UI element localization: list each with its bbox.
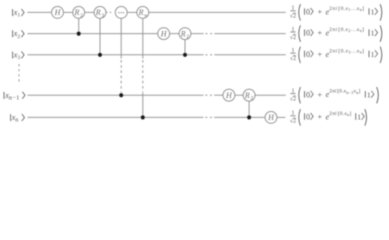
wire row4 cdots dash2: [210, 94, 212, 96]
gate R3 row1: [94, 6, 106, 18]
svg-text:0: 0: [306, 8, 310, 17]
svg-text:x2: x2: [13, 29, 21, 40]
svg-text:+: +: [318, 8, 323, 17]
expression row2: [290, 25, 382, 41]
svg-text:xn: xn: [11, 113, 19, 124]
gate R2 row4: [243, 89, 255, 101]
wire row3 cdots dash1: [205, 54, 207, 56]
svg-text:n: n: [144, 13, 147, 19]
gate H row1: [52, 6, 64, 18]
svg-text:xn−1: xn−1: [4, 91, 19, 102]
gate H row5: [265, 112, 277, 124]
svg-text:2: 2: [186, 34, 189, 40]
svg-text:1: 1: [371, 50, 375, 59]
expression row1: [290, 4, 382, 20]
wire row2 mid: [191, 33, 204, 35]
wire row1 R2-R3: [85, 11, 95, 13]
svg-text:+: +: [318, 90, 323, 99]
svg-text:+: +: [318, 113, 323, 122]
wire row3 left: [28, 54, 204, 56]
svg-text:2πi[0.x1…xn]: 2πi[0.x1…xn]: [329, 6, 364, 12]
control line R2 row2 to row3: [184, 40, 186, 55]
svg-text:R: R: [180, 29, 186, 38]
wire row2 cdots dash1: [205, 33, 207, 35]
wire row5 left: [28, 116, 204, 118]
qubit label |xn>: [11, 113, 25, 124]
svg-text:x1: x1: [13, 8, 21, 19]
wire row2 H-R2: [170, 33, 180, 35]
wire row4 mid: [214, 94, 223, 96]
wire row1 cdots-Rn: [127, 11, 137, 13]
svg-text:R: R: [74, 8, 80, 17]
wire row2 cdots dash2: [210, 33, 212, 35]
svg-text:R: R: [138, 8, 144, 17]
wire row3 cdots dash2: [210, 54, 212, 56]
qubit label |x1>: [13, 8, 25, 19]
svg-text:2πi[0.x3…xn]: 2πi[0.x3…xn]: [329, 48, 364, 54]
wire row1 right: [149, 11, 286, 13]
expression row3: [290, 47, 382, 63]
control line R2 row1 to row2: [78, 18, 80, 33]
wire row1 dash2 R3-cdots: [110, 11, 112, 13]
svg-text:1: 1: [371, 8, 375, 17]
svg-text:√2: √2: [290, 55, 296, 62]
wire row2 left: [28, 33, 158, 35]
svg-text:√2: √2: [290, 96, 296, 103]
svg-text:0: 0: [306, 90, 310, 99]
control dot row5 for R2 row4: [247, 115, 251, 119]
svg-text:1: 1: [371, 29, 375, 38]
svg-text:√2: √2: [290, 34, 296, 41]
control line cdots-gate dashed part: [120, 60, 122, 92]
wire row4 cdots dash1: [205, 94, 207, 96]
wire row5 cdots dash1: [205, 116, 207, 118]
svg-text:2πi[0.x2…xn]: 2πi[0.x2…xn]: [329, 27, 364, 33]
gate R2 row2: [179, 28, 191, 40]
svg-text:R: R: [95, 8, 101, 17]
wire row1 H-R2: [63, 11, 72, 13]
wire row3 right: [214, 54, 285, 56]
wire row4 left: [28, 94, 204, 96]
svg-text:1: 1: [367, 90, 371, 99]
svg-text:√2: √2: [290, 118, 296, 125]
control line R3 row1 to row3: [99, 18, 101, 55]
svg-text:0: 0: [306, 50, 310, 59]
gate Rn row1: [137, 6, 149, 18]
control line Rn solid upper: [142, 18, 144, 58]
control line R2 row4 to row5: [248, 101, 250, 117]
gate H row2: [158, 28, 170, 40]
svg-text:+: +: [318, 29, 323, 38]
control dot row3 for R3: [98, 53, 102, 57]
vertical dots continuation under labels: [18, 64, 20, 82]
gate cdots row1: [115, 6, 127, 18]
svg-text:2: 2: [251, 96, 254, 102]
svg-text:3: 3: [101, 13, 104, 19]
wire row4 H-R2: [235, 94, 244, 96]
svg-text:1: 1: [357, 113, 361, 122]
expression row5: [290, 109, 367, 125]
wire row4 right: [255, 94, 286, 96]
qubit label |x2>: [13, 29, 25, 40]
wire row5 cdots dash2: [210, 116, 212, 118]
control line cdots-gate lower solid: [120, 93, 122, 96]
svg-text:0: 0: [306, 113, 310, 122]
expression row4: [290, 87, 378, 103]
svg-text:+: +: [318, 50, 323, 59]
control line Rn lower solid: [142, 93, 144, 118]
wire row5 right: [277, 116, 286, 118]
svg-text:√2: √2: [290, 13, 296, 20]
svg-text:2πi[0.xn]: 2πi[0.xn]: [329, 111, 351, 117]
wire row5 mid: [214, 116, 265, 118]
control dot row2: [77, 31, 81, 35]
svg-text:0: 0: [306, 29, 310, 38]
wire row1 left: [28, 11, 52, 13]
wire row1 dash1 R3-cdots: [106, 11, 108, 13]
qubit label |x3>: [13, 50, 25, 61]
gate H row4: [223, 89, 235, 101]
gate R2 row1: [73, 6, 85, 18]
control dot row4 for cdots gate: [119, 93, 123, 97]
svg-text:R: R: [244, 91, 250, 100]
svg-text:x3: x3: [13, 50, 21, 61]
control dot row5 for Rn: [141, 115, 145, 119]
qubit label |xn-1>: [4, 91, 25, 102]
svg-text:2πi[0.xn−1xn]: 2πi[0.xn−1xn]: [329, 89, 360, 95]
wire row2 right: [214, 33, 285, 35]
svg-text:2: 2: [80, 13, 83, 19]
control line Rn dashed part: [142, 60, 144, 92]
control dot row3 for R2 row2: [183, 53, 187, 57]
control line cdots-gate solid part: [120, 18, 122, 58]
